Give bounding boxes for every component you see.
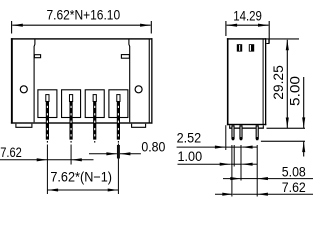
dimension 7.62*(N-1) line with arrows	[48, 189, 119, 191]
dimension 2.52 line continuation	[226, 146, 242, 148]
vent slot 1	[237, 44, 242, 51]
front body left edge	[11, 38, 13, 123]
svg-text:7.62*N+16.10: 7.62*N+16.10	[46, 8, 120, 23]
pin P3 centerline dot	[94, 141, 95, 143]
dimension 7.62*N+16.10 left extension line	[11, 21, 13, 34]
dimension 7.62 right line continuation	[233, 193, 257, 195]
slot 3	[85, 90, 104, 118]
side body top edge	[227, 38, 266, 39]
svg-text:2.52: 2.52	[177, 131, 202, 146]
dimension 7.62 right line left arrow	[215, 193, 233, 195]
dimension 1.00 line continuation	[230, 163, 242, 165]
right bottom step	[132, 124, 146, 128]
dimension 29.25 line with arrows	[286, 40, 288, 128]
dimension 29.25 text (rotated)	[271, 65, 286, 100]
pin P4 left edge extension line	[116, 145, 118, 159]
left mounting hole circle	[20, 86, 27, 93]
side pin B	[239, 125, 242, 140]
svg-text:29.25: 29.25	[271, 65, 286, 100]
slot 4	[109, 90, 128, 118]
dimension 7.62*N+16.10 line with arrows	[12, 24, 150, 26]
right latch tab	[121, 55, 129, 59]
dimension 5.00 upper arrow line	[303, 77, 305, 128]
dimension 7.62*N+16.10 text	[46, 8, 120, 23]
dimension 2.52 line left arrow	[177, 146, 226, 148]
side body right outer edge	[265, 38, 266, 125]
side pin B extension line	[240, 145, 242, 181]
side body bottom edge	[227, 124, 266, 125]
svg-text:7.62: 7.62	[0, 145, 22, 160]
pin P4 centerline dot	[118, 141, 119, 143]
side body left edge extension line	[225, 125, 227, 150]
side body top right tab	[266, 39, 269, 44]
side pin C extension line	[256, 145, 258, 197]
side pin A	[231, 125, 234, 140]
svg-text:5.00: 5.00	[287, 76, 302, 106]
svg-text:7.62: 7.62	[282, 180, 306, 195]
dimension 14.29 left extension line	[225, 21, 227, 36]
pin P4 lower black part	[117, 102, 120, 140]
side bottom step	[230, 125, 264, 128]
dimension 2.52 right arrow	[242, 146, 257, 148]
side pin A right extension line	[233, 145, 235, 167]
pin P2 extension line	[70, 145, 72, 165]
dimension 7.62 left text	[0, 145, 22, 160]
svg-text:5.08: 5.08	[282, 164, 306, 179]
pin P3 lower black part	[93, 102, 96, 140]
dimension 2.52 text	[177, 131, 202, 146]
dimension 7.62 span line	[47, 159, 71, 161]
dimension 0.80 left arrow line	[89, 153, 117, 155]
dimension 7.62 right arrow	[257, 193, 313, 195]
dimension 5.00 lower arrow line	[303, 142, 305, 157]
side body left edge	[227, 38, 229, 125]
pin P4 right edge extension line	[118, 145, 120, 159]
dimension 5.08 line continuation	[241, 178, 257, 180]
dimension 5.08 text	[282, 164, 306, 179]
front body bottom edge	[11, 122, 153, 123]
dimension 1.00 line left arrow	[178, 163, 231, 165]
side body right inner line	[263, 39, 264, 125]
svg-text:7.62*(N−1): 7.62*(N−1)	[50, 170, 112, 185]
front body right inner line	[149, 39, 150, 123]
dimension 14.29 text	[233, 9, 262, 24]
dimension 0.80 text	[141, 139, 165, 154]
pin tip level extension line right	[261, 141, 305, 142]
front cavity right wall	[128, 39, 131, 122]
dimension 7.62 left arrow line	[0, 159, 47, 161]
vent slot 2	[249, 44, 254, 51]
pin P1 extension line	[46, 145, 48, 195]
pin P2 centerline dot	[71, 141, 72, 143]
side step bottom line	[229, 128, 264, 129]
front body top edge	[11, 38, 153, 39]
svg-text:14.29: 14.29	[233, 9, 262, 24]
right mounting hole circle	[135, 86, 142, 93]
slot 2	[62, 90, 81, 118]
dimension 1.00 right arrow	[242, 163, 257, 165]
dimension 0.80 right arrow line	[120, 153, 141, 155]
side body top extension line to right	[266, 38, 299, 39]
dimension 7.62 right arrow line	[71, 159, 93, 161]
dimension 5.08 line left arrow	[223, 178, 241, 180]
dimension 7.62*(N-1) text	[50, 170, 112, 185]
dimension 7.62*N+16.10 right extension line	[150, 21, 152, 34]
pin P2 lower black part	[69, 102, 72, 140]
pin P4 upper white part	[117, 95, 120, 102]
pin P2 upper white part	[69, 95, 72, 102]
dimension 5.08 right arrow	[257, 178, 313, 180]
front body right outer edge	[151, 38, 152, 123]
svg-text:0.80: 0.80	[141, 139, 165, 154]
dimension 7.62 right text	[282, 180, 306, 195]
side pin A left extension line	[231, 145, 233, 197]
seat level extension line right	[267, 128, 306, 129]
slot 1	[38, 90, 57, 118]
pin P4 center extension line	[117, 144, 119, 195]
dimension 14.29 right extension line	[268, 21, 270, 44]
pin P3 upper white part	[93, 95, 96, 102]
dimension 5.00 text (rotated)	[287, 76, 302, 106]
left latch tab	[34, 55, 40, 58]
side pin C	[256, 125, 259, 140]
pin P1 centerline dot	[47, 141, 48, 143]
pin P1 upper white part	[46, 95, 49, 102]
pin P1 lower black part	[46, 102, 49, 140]
front cavity left wall	[33, 39, 36, 122]
svg-text:1.00: 1.00	[178, 149, 203, 164]
left bottom step	[16, 124, 32, 128]
dimension 14.29 line with arrows	[227, 24, 269, 26]
dimension 1.00 text	[178, 149, 203, 164]
